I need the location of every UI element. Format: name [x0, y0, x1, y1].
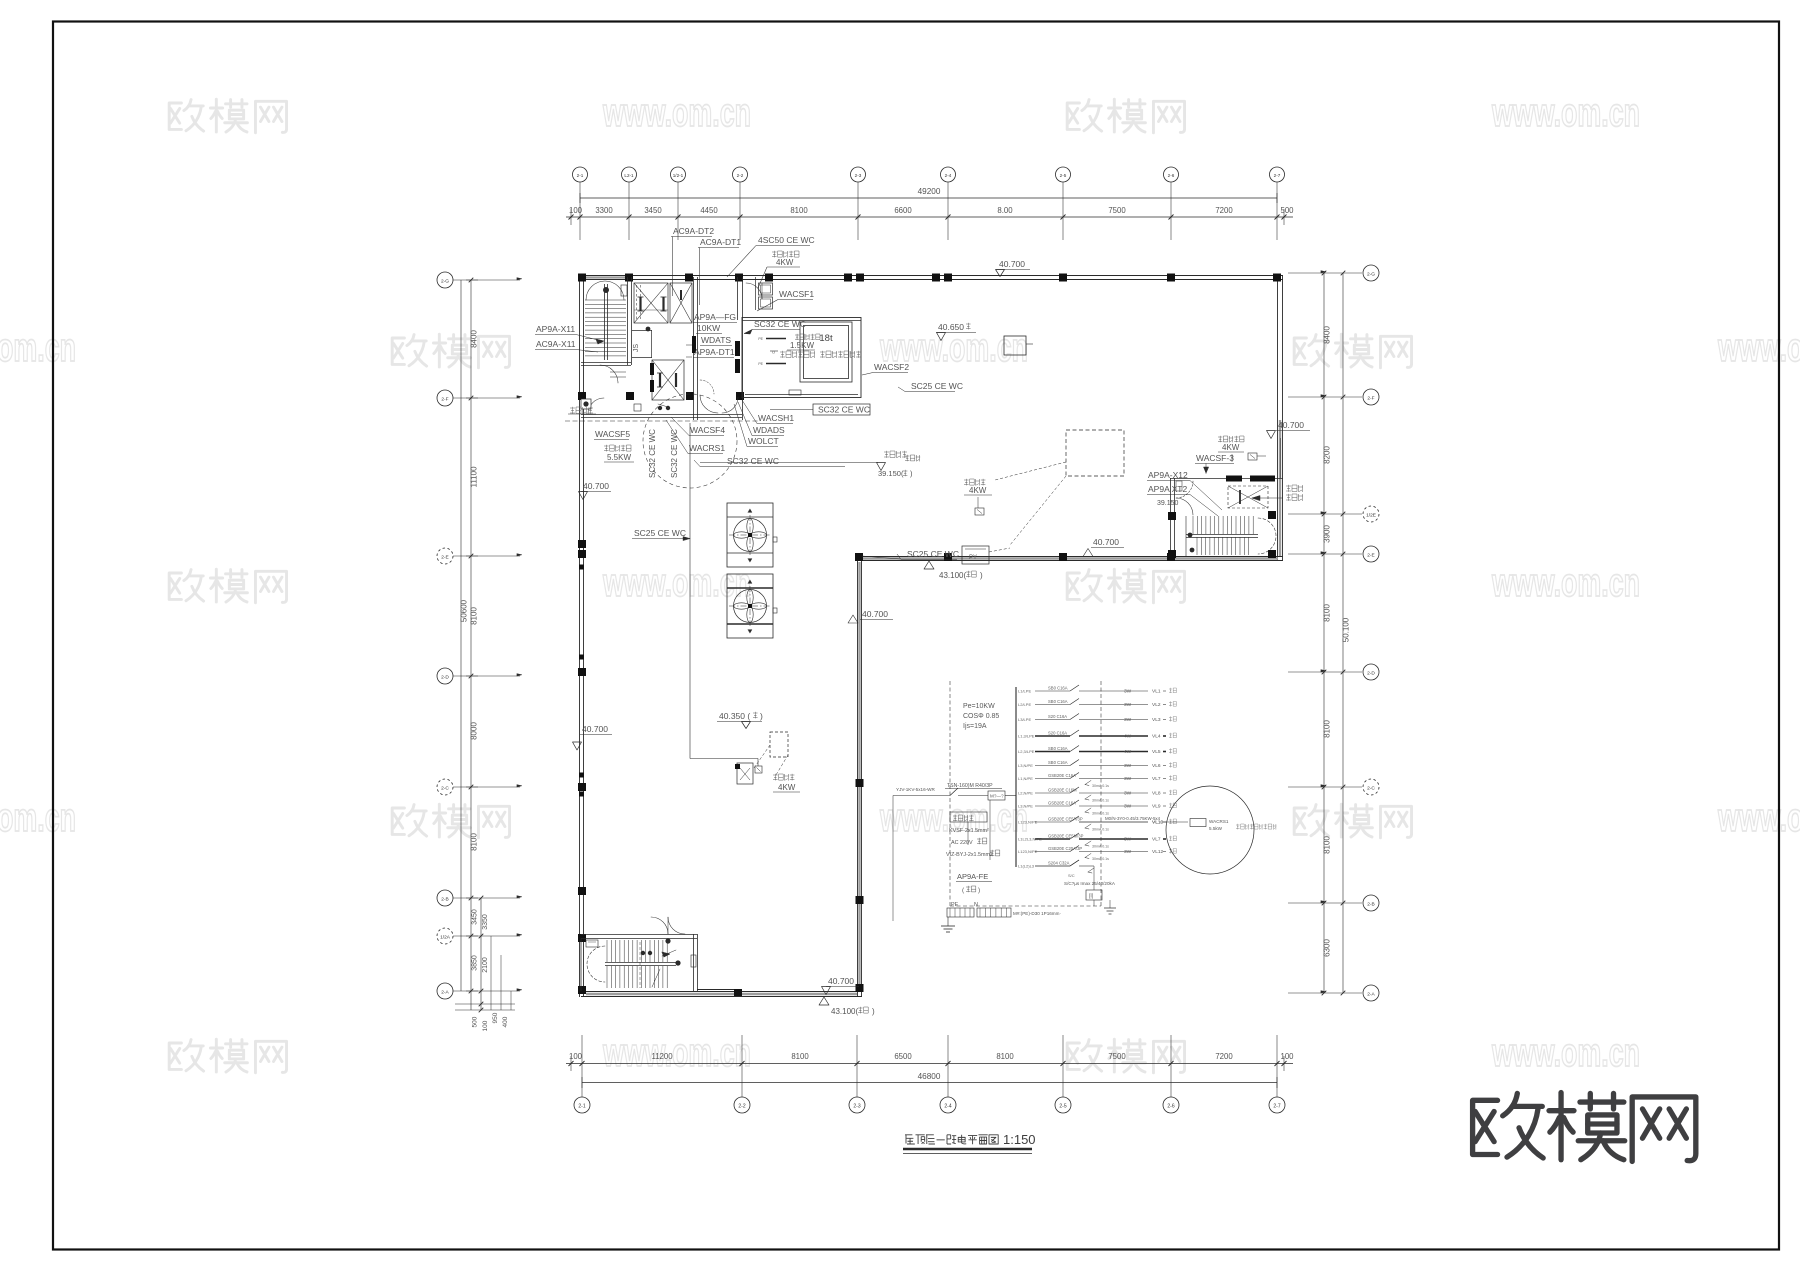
svg-text:www.om.cn: www.om.cn — [1491, 561, 1640, 605]
svg-text:40.650: 40.650 — [938, 322, 964, 332]
elevation 40.700 on vertical parapet — [848, 609, 893, 623]
labels AP9A-FG 10KW WDATS AP9A-DT1 — [686, 312, 737, 358]
isolation box and wiring text — [946, 800, 1000, 860]
label AC9A-DT2 — [671, 226, 714, 296]
label SC25 CE WC b — [862, 549, 959, 560]
svg-text:SC25 CE WC: SC25 CE WC — [911, 381, 963, 391]
elevator shaft 2 with cross bracing — [670, 283, 692, 323]
label WACSF-3 — [1195, 453, 1234, 474]
svg-text:): ) — [980, 571, 983, 580]
svg-text:8100: 8100 — [791, 1052, 809, 1061]
svg-text:WACSF-3: WACSF-3 — [1196, 453, 1234, 463]
svg-text:2-A: 2-A — [1367, 992, 1375, 998]
svg-text:www.om.cn: www.om.cn — [1491, 1031, 1640, 1075]
svg-text:2-6: 2-6 — [1168, 173, 1175, 178]
svg-text:VIZ-BYJ-2x1.5mm2: VIZ-BYJ-2x1.5mm2 — [946, 852, 993, 858]
svg-text:7200: 7200 — [1215, 206, 1233, 215]
svg-text:): ) — [872, 1007, 875, 1016]
svg-text:2-3: 2-3 — [855, 173, 862, 178]
svg-text:L2,3/LPE: L2,3/LPE — [1018, 749, 1035, 754]
svg-text:2-A: 2-A — [441, 990, 449, 996]
svg-text:S/C: S/C — [1068, 873, 1075, 878]
svg-text:2-3: 2-3 — [853, 1104, 860, 1110]
svg-text:AP9A-FE: AP9A-FE — [957, 872, 988, 881]
svg-text:500: 500 — [472, 1016, 479, 1027]
svg-text:L1/LPE: L1/LPE — [1018, 689, 1031, 694]
svg-text:5.5kW: 5.5kW — [1209, 826, 1223, 831]
svg-text:100: 100 — [569, 1052, 583, 1061]
building inner parapet - horizontal — [857, 557, 1283, 561]
panel circuit rows — [1018, 685, 1176, 869]
right stair door arcs — [1176, 481, 1193, 515]
label roof fan 4KW top — [758, 251, 800, 288]
svg-text:WDATS: WDATS — [701, 335, 731, 345]
incoming feeder line — [893, 783, 1016, 921]
svg-text:3300: 3300 — [595, 206, 613, 215]
elevation 43.100 below parapet — [924, 561, 983, 580]
svg-text:4KW: 4KW — [969, 486, 987, 495]
labels WACSH1 WDADS WOLCT — [734, 400, 794, 447]
svg-text:YJV-1KV-5x16-WR: YJV-1KV-5x16-WR — [896, 787, 935, 792]
svg-text:VL6: VL6 — [1152, 763, 1161, 769]
svg-text:3W: 3W — [1124, 804, 1132, 810]
svg-text:4KW: 4KW — [778, 783, 796, 792]
left axis grid circles and lines — [437, 272, 522, 999]
svg-text:3W: 3W — [1124, 849, 1132, 855]
svg-text:): ) — [978, 887, 980, 894]
svg-text:3900: 3900 — [1323, 525, 1332, 543]
svg-text:SC32 CE WC: SC32 CE WC — [670, 429, 679, 478]
svg-text:PE: PE — [951, 902, 959, 908]
stairwell top-left: treads — [585, 300, 626, 356]
top axis dimension line — [566, 206, 1294, 240]
label SC32 CE WC mid — [744, 319, 806, 334]
svg-text:4W: 4W — [1124, 734, 1132, 740]
svg-text:AC9A-DT2: AC9A-DT2 — [673, 226, 714, 236]
svg-text:www.om.cn: www.om.cn — [1717, 796, 1800, 840]
panel load parameters text — [963, 703, 999, 730]
panel ground symbol — [941, 917, 955, 932]
right stair rail and arc — [1186, 516, 1276, 556]
machine room lower room door arcs — [581, 365, 618, 414]
svg-text:2-2: 2-2 — [738, 1104, 745, 1110]
svg-text:Ijs=19A: Ijs=19A — [963, 723, 987, 730]
PE N terminal strips — [947, 902, 1061, 917]
svg-text:L1,N/PE: L1,N/PE — [1018, 776, 1033, 781]
motor circuit row to pump — [1079, 816, 1276, 831]
svg-text:2-1: 2-1 — [578, 1104, 585, 1110]
svg-text:VL8: VL8 — [1152, 791, 1161, 797]
pedestrian ramp annotation — [700, 451, 920, 478]
svg-text:4KW: 4KW — [776, 258, 794, 267]
svg-text:N: N — [974, 902, 978, 908]
svg-text:4KW: 4KW — [1222, 443, 1240, 452]
svg-text:WOLCT: WOLCT — [748, 436, 779, 446]
wall columns along left axis — [578, 392, 744, 994]
label SC32 CE WC boxed — [770, 404, 870, 415]
label fire tank chinese — [780, 351, 861, 358]
svg-text:2-1: 2-1 — [577, 173, 584, 178]
svg-text:8100: 8100 — [790, 206, 808, 215]
panel schematic frame — [950, 681, 1101, 906]
elevation 40.700 lower left — [573, 724, 613, 750]
svg-text:8100: 8100 — [470, 607, 479, 625]
svg-text:30mA 0.1s: 30mA 0.1s — [1092, 784, 1109, 788]
svg-text:8.00: 8.00 — [997, 206, 1013, 215]
svg-text:www.om.cn: www.om.cn — [602, 91, 751, 135]
svg-text:L2/LPE: L2/LPE — [1018, 702, 1031, 707]
svg-text:2-C: 2-C — [441, 786, 449, 792]
svg-text:VL5: VL5 — [1152, 749, 1161, 755]
svg-text:39.150: 39.150 — [1157, 500, 1179, 507]
svg-text:4W: 4W — [1124, 749, 1132, 755]
svg-text:30mA 0.1s: 30mA 0.1s — [1092, 828, 1109, 832]
svg-text:SC25 CE WC: SC25 CE WC — [907, 549, 959, 559]
svg-text:PE: PE — [758, 362, 763, 366]
svg-text:L123,N/PE: L123,N/PE — [1018, 849, 1038, 854]
svg-text:S20 C16A: S20 C16A — [1048, 731, 1067, 736]
svg-text:100: 100 — [482, 1020, 489, 1031]
svg-text:M#:(PE)-D30 1P16mm·: M#:(PE)-D30 1P16mm· — [1013, 911, 1061, 916]
svg-text:3350: 3350 — [482, 914, 489, 930]
svg-text:S/C?µs Imax 25/40/20kA: S/C?µs Imax 25/40/20kA — [1064, 881, 1116, 886]
svg-text:www.om.cn: www.om.cn — [1717, 326, 1800, 370]
svg-text:JS: JS — [633, 344, 640, 353]
svg-text:43.100(: 43.100( — [831, 1007, 858, 1016]
label fire exhaust fan right — [1252, 485, 1303, 501]
svg-text:4SC50 CE WC: 4SC50 CE WC — [758, 235, 815, 245]
stairwell top-left: center rail and arc — [586, 281, 627, 360]
svg-text:8100: 8100 — [1323, 836, 1332, 854]
bottom axis grid circles — [574, 1072, 1285, 1113]
svg-text:2-6: 2-6 — [1167, 1104, 1174, 1110]
svg-text:2-D: 2-D — [1367, 671, 1375, 677]
building outer wall - bottom of left wing — [581, 990, 862, 997]
svg-text:3W: 3W — [1124, 717, 1132, 723]
svg-text:GSB20E CE5M/3P: GSB20E CE5M/3P — [1048, 834, 1084, 839]
svg-text:L123,N/PE: L123,N/PE — [1018, 820, 1038, 825]
svg-text:2-G: 2-G — [1367, 272, 1375, 278]
svg-text:AP9A XT2: AP9A XT2 — [1148, 484, 1187, 494]
top axis total dimension 49200 — [580, 187, 1277, 203]
elevation 40.650 — [936, 322, 976, 341]
svg-text:O: O — [772, 350, 775, 355]
svg-text:40.700: 40.700 — [583, 481, 609, 491]
left axis dimension lines — [455, 278, 515, 1032]
svg-text:www.om.cn: www.om.cn — [0, 326, 76, 370]
svg-text:S204 C32A: S204 C32A — [1048, 861, 1070, 866]
svg-text:18t: 18t — [819, 333, 833, 344]
machine room extra interior details — [610, 285, 670, 411]
svg-text:WACRS1: WACRS1 — [1209, 819, 1229, 824]
label SC25 CE WC a — [898, 381, 963, 392]
svg-text:2-2: 2-2 — [737, 173, 744, 178]
svg-text:2-5: 2-5 — [1059, 1104, 1066, 1110]
svg-text:L1(L2)L3: L1(L2)L3 — [1018, 864, 1035, 869]
svg-text:1/2A: 1/2A — [440, 935, 451, 941]
svg-text:6300: 6300 — [1323, 939, 1332, 957]
svg-text:40.700: 40.700 — [582, 724, 608, 734]
svg-text:49200: 49200 — [918, 187, 941, 196]
svg-text:43.100(: 43.100( — [939, 571, 966, 580]
svg-text:VL1: VL1 — [1152, 689, 1161, 695]
svg-text:VL2: VL2 — [1152, 702, 1161, 708]
svg-text:50600: 50600 — [460, 599, 469, 622]
svg-text:SC32 CE WC: SC32 CE WC — [648, 429, 657, 478]
svg-text:8000: 8000 — [470, 722, 479, 740]
top axis grid circles — [573, 167, 1285, 209]
svg-text:46800: 46800 — [918, 1072, 941, 1081]
svg-text:8400: 8400 — [1323, 326, 1332, 344]
svg-text:400: 400 — [502, 1016, 509, 1027]
svg-text:AP9A—FG: AP9A—FG — [694, 312, 736, 322]
exhaust unit box PY — [962, 546, 1010, 564]
right stair treads — [1193, 516, 1253, 555]
svg-text:SB0 C16A: SB0 C16A — [1048, 686, 1068, 691]
stairwell bottom-left treads — [607, 940, 667, 988]
drawing title — [903, 1132, 1036, 1154]
svg-text:L2,N/PE: L2,N/PE — [1018, 791, 1033, 796]
svg-text:30mA 0.1s: 30mA 0.1s — [1092, 812, 1109, 816]
label 4 water pipe — [565, 407, 760, 421]
machine room door arcs right section — [700, 380, 738, 413]
wall columns along top axis — [578, 274, 1281, 282]
svg-text:40.700: 40.700 — [999, 259, 1025, 269]
svg-text:www.om.cn: www.om.cn — [1491, 91, 1640, 135]
svg-text:SB0 C16A: SB0 C16A — [1048, 760, 1068, 765]
label WACSF5 and fan 5.5KW — [594, 429, 634, 462]
elevation 40.350 step — [717, 711, 763, 729]
svg-text:WACSF1: WACSF1 — [779, 289, 814, 299]
pump group circle — [1166, 786, 1254, 874]
right stair room walls — [1170, 476, 1283, 559]
svg-text:8200: 8200 — [1323, 446, 1332, 464]
svg-text:11100: 11100 — [470, 466, 479, 488]
svg-text:WDADS: WDADS — [753, 425, 785, 435]
svg-text:VL10: VL10 — [1152, 820, 1164, 826]
svg-text:3W: 3W — [1124, 791, 1132, 797]
svg-text:www.om.cn: www.om.cn — [602, 561, 751, 605]
stairwell bottom-left door arcs — [651, 917, 696, 967]
bottom axis dimension line — [566, 1035, 1294, 1072]
surge row connection — [1035, 860, 1094, 890]
label WACSF2 — [862, 362, 909, 375]
svg-text:L2-1: L2-1 — [624, 173, 634, 178]
svg-text:1/2-1: 1/2-1 — [673, 173, 684, 178]
svg-text:40.700: 40.700 — [828, 976, 854, 986]
svg-text:7500: 7500 — [1108, 1052, 1126, 1061]
svg-text:8100: 8100 — [1323, 604, 1332, 622]
rooftop unit solid box — [1004, 336, 1033, 355]
svg-text:WACSH1: WACSH1 — [758, 413, 794, 423]
svg-text:2-7: 2-7 — [1274, 173, 1281, 178]
label fan 4KW right stair — [1218, 436, 1266, 462]
shaft door black bars — [692, 336, 740, 373]
svg-text:3850: 3850 — [472, 955, 479, 971]
omw logo bottom right — [1473, 1093, 1696, 1162]
svg-text:SC25 CE WC: SC25 CE WC — [634, 528, 686, 538]
label AC9A-DT1 — [698, 237, 741, 305]
small rooms J5 PF — [756, 277, 773, 310]
svg-text:AC9A-X11: AC9A-X11 — [536, 339, 576, 349]
elevation 40.700 above bottom wall — [822, 976, 860, 995]
right axis dimension lines — [1322, 271, 1351, 996]
svg-text:30mA 0.1s: 30mA 0.1s — [1092, 799, 1109, 803]
labels WACSF4 WACRS1 — [666, 417, 725, 454]
panel name AP9A-FE — [956, 872, 992, 894]
svg-text:TSN-160)M R40/3P: TSN-160)M R40/3P — [947, 783, 993, 789]
elevation 40.700 left — [579, 481, 612, 500]
wall columns along inner walls — [734, 553, 1175, 996]
svg-text:4450: 4450 — [700, 206, 718, 215]
svg-text:2100: 2100 — [482, 957, 489, 973]
svg-text:www.om.cn: www.om.cn — [602, 1031, 751, 1075]
svg-text:[I]: [I] — [1089, 894, 1094, 900]
svg-text:VL7: VL7 — [1152, 837, 1161, 843]
svg-text:2-E: 2-E — [441, 555, 448, 561]
svg-text:VL9: VL9 — [1152, 804, 1161, 810]
roof fan unit 2 — [727, 574, 777, 638]
svg-text:WACSF5: WACSF5 — [595, 429, 630, 439]
elevator shaft 1 with cross bracing — [634, 283, 668, 323]
svg-text:SC32 CE WC: SC32 CE WC — [818, 405, 870, 415]
building outer wall - right — [1278, 276, 1283, 562]
svg-text:3W: 3W — [1124, 689, 1132, 695]
svg-text:M?—?: M?—? — [990, 794, 1004, 799]
svg-text:3W: 3W — [1124, 763, 1132, 769]
svg-text:40.700: 40.700 — [1093, 537, 1119, 547]
stairwell bottom-left dashed leaders — [640, 942, 660, 988]
label SC32 CE WC long leader — [694, 456, 845, 467]
svg-text:AC 220V: AC 220V — [951, 840, 973, 846]
svg-text:KVSF-2x1.5mm²: KVSF-2x1.5mm² — [949, 828, 989, 834]
svg-text:40.350 (: 40.350 ( — [719, 711, 750, 721]
svg-text:WACRS1: WACRS1 — [689, 443, 725, 453]
svg-text:2-D: 2-D — [441, 675, 449, 681]
svg-text:2-B: 2-B — [441, 897, 448, 903]
label 40.700 top mid — [996, 259, 1031, 277]
svg-text:7200: 7200 — [1215, 1052, 1233, 1061]
svg-text:3W: 3W — [1124, 837, 1132, 843]
svg-text:100: 100 — [1280, 1052, 1294, 1061]
water tank 18t inner tank — [800, 322, 852, 382]
svg-text:8400: 8400 — [470, 330, 479, 348]
svg-text:L3,N/PE: L3,N/PE — [1018, 804, 1033, 809]
svg-text:39.150(: 39.150( — [878, 469, 904, 478]
conduit riser line — [690, 423, 758, 766]
svg-text:SC32 CE WC: SC32 CE WC — [754, 319, 806, 329]
svg-text:2-G: 2-G — [441, 279, 449, 285]
elevator shaft 3 lower — [650, 360, 684, 400]
elevation 40.700 on inner corner — [1083, 537, 1124, 557]
svg-text:AC9A-DT1: AC9A-DT1 — [700, 237, 741, 247]
right stair columns — [1168, 511, 1276, 558]
svg-text:VL7: VL7 — [1152, 776, 1161, 782]
svg-text:AP9A-X12: AP9A-X12 — [1148, 470, 1188, 480]
bottom axis total dimension 46800 — [582, 1072, 1277, 1088]
svg-text:Pe=10KW: Pe=10KW — [963, 703, 995, 710]
water tank room door arc — [746, 283, 762, 299]
water tank room walls — [742, 318, 861, 398]
label WACSF1 — [757, 289, 814, 311]
svg-text:SB0 C16A: SB0 C16A — [1048, 699, 1068, 704]
roof fan unit 1 — [727, 503, 777, 567]
svg-text:AP9A-X11: AP9A-X11 — [536, 324, 575, 334]
svg-text:2-5: 2-5 — [1060, 173, 1067, 178]
svg-text:COSΦ 0.85: COSΦ 0.85 — [963, 713, 999, 720]
label 4SC50 CE WC — [727, 235, 815, 277]
svg-text:100: 100 — [569, 206, 583, 215]
svg-text:10KW: 10KW — [697, 323, 720, 333]
svg-text:8100: 8100 — [996, 1052, 1014, 1061]
surge protection branch — [1064, 881, 1116, 914]
svg-text:1/2E: 1/2E — [1366, 513, 1376, 519]
svg-text:1.5KW: 1.5KW — [790, 341, 814, 350]
svg-text:40.700: 40.700 — [862, 609, 888, 619]
svg-text:2-E: 2-E — [1367, 553, 1374, 559]
building outer wall - left — [580, 276, 584, 998]
watermark grid — [0, 91, 1800, 1075]
label SC25 CE WC to conduit — [632, 528, 690, 541]
svg-text:VL4: VL4 — [1152, 734, 1161, 740]
water tank platform marks — [758, 337, 801, 395]
svg-text:2-7: 2-7 — [1273, 1104, 1280, 1110]
svg-text:2-F: 2-F — [441, 397, 448, 403]
svg-text:www.om.cn: www.om.cn — [0, 796, 76, 840]
machine room walls — [581, 277, 743, 420]
svg-text:8100: 8100 — [470, 833, 479, 851]
svg-text:5.5KW: 5.5KW — [607, 453, 631, 462]
stairwell bottom-left rail and arc — [586, 938, 681, 982]
dashed equipment box mid right — [995, 430, 1124, 545]
svg-text:2-B: 2-B — [1367, 902, 1374, 908]
svg-text:S20 C16A: S20 C16A — [1048, 714, 1067, 719]
svg-text:AP9A-DT1: AP9A-DT1 — [694, 347, 735, 357]
label AP9A-X11 AC9A-X11 — [535, 324, 604, 352]
building outer wall - top — [578, 276, 1283, 280]
svg-text:30mA 0.1s: 30mA 0.1s — [1092, 857, 1109, 861]
svg-text:PY: PY — [969, 555, 977, 561]
svg-text:VL3: VL3 — [1152, 717, 1161, 723]
svg-text:500: 500 — [1280, 206, 1294, 215]
stairwell bottom-left walls — [581, 934, 698, 991]
building inner parapet - vertical — [858, 557, 862, 998]
svg-text:3450: 3450 — [644, 206, 662, 215]
svg-text:11200: 11200 — [651, 1052, 673, 1061]
svg-text:950: 950 — [492, 1012, 499, 1023]
vertical conduit labels SC32 — [648, 429, 679, 478]
right stair dashed hoist with cross — [1228, 486, 1268, 508]
svg-text:WACSF2: WACSF2 — [874, 362, 909, 372]
small roof fan with dashed box — [735, 732, 800, 792]
svg-text:GSB20E C16M: GSB20E C16M — [1048, 788, 1077, 793]
svg-text:SC32 CE WC: SC32 CE WC — [727, 456, 779, 466]
right axis grid circles and lines — [1288, 265, 1379, 1001]
svg-text:30mA 0.1s: 30mA 0.1s — [1092, 845, 1109, 849]
elevation 43.100 below bottom wall — [819, 997, 875, 1016]
svg-text:VL12: VL12 — [1152, 849, 1164, 855]
svg-text:2-4: 2-4 — [945, 173, 952, 178]
svg-text:L3,N/PE: L3,N/PE — [1018, 763, 1033, 768]
svg-text:L3/LPE: L3/LPE — [1018, 717, 1031, 722]
svg-text:2-C: 2-C — [1367, 786, 1375, 792]
svg-text:7500: 7500 — [1108, 206, 1126, 215]
svg-text:2-4: 2-4 — [944, 1104, 951, 1110]
label 1.5KW roof fan — [787, 334, 820, 350]
svg-text:PE: PE — [758, 337, 763, 341]
svg-text:SB0 C16A: SB0 C16A — [1048, 746, 1068, 751]
svg-text:8100: 8100 — [1323, 720, 1332, 738]
